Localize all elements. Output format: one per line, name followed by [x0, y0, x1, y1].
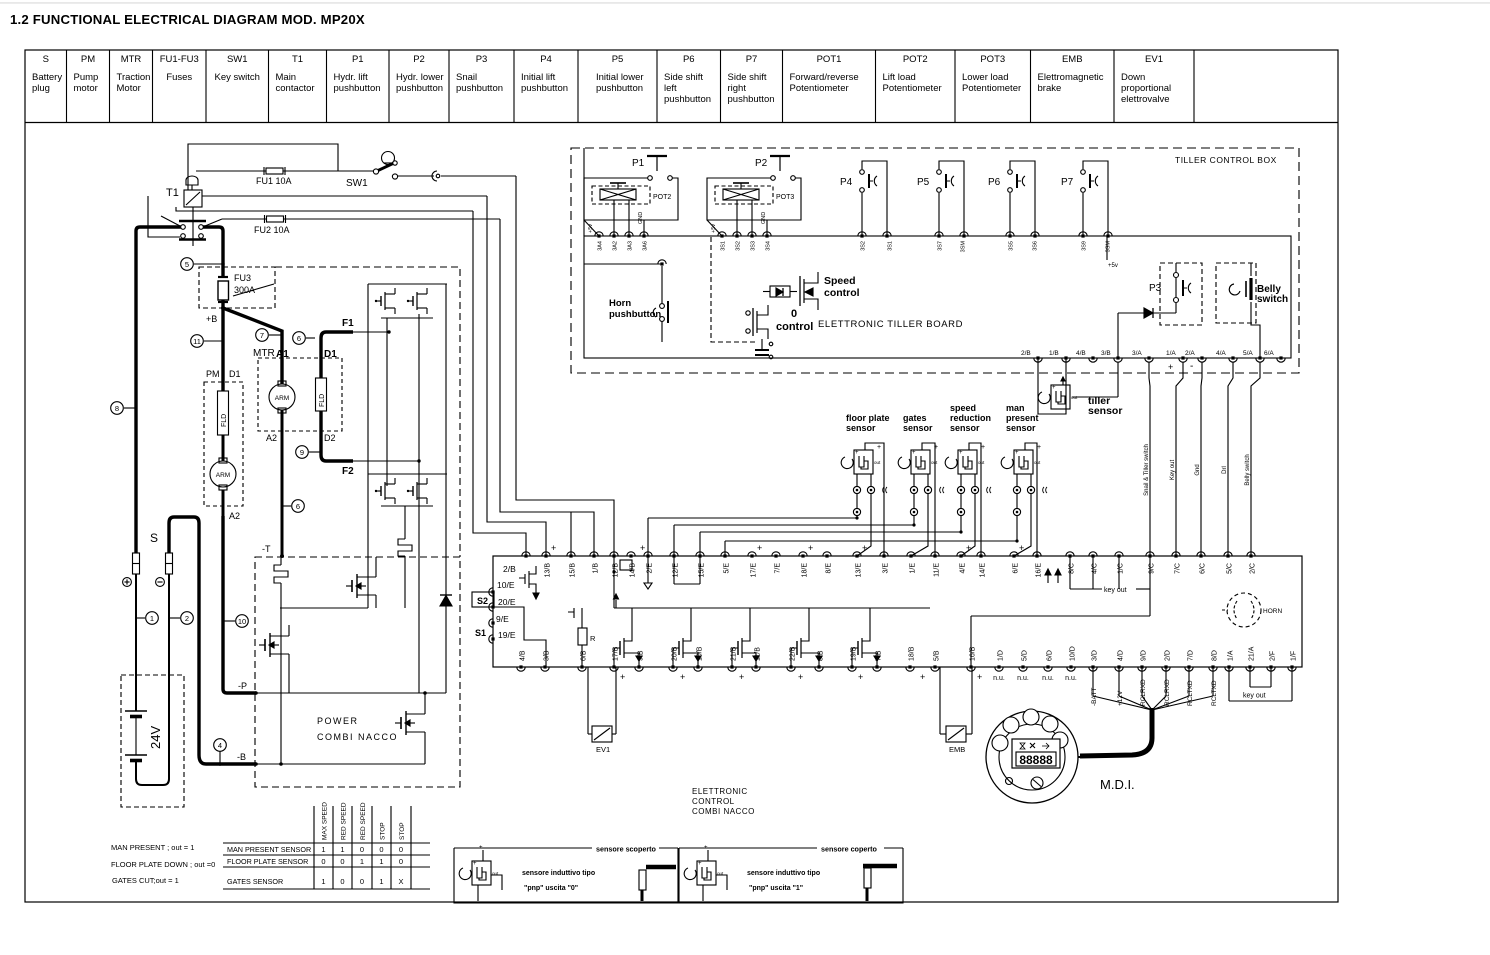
svg-text:key out: key out: [1104, 587, 1127, 594]
fuse FU1 10A: [266, 168, 283, 174]
wire bus y196 from T1 coil: [202, 195, 487, 197]
svg-text:Side shift: Side shift: [664, 72, 703, 83]
contactor T1 flag: [186, 176, 198, 185]
svg-text:Pump: Pump: [74, 72, 99, 83]
speed control transistor: [799, 276, 801, 306]
wire T1 aux diagonals: [161, 216, 180, 226]
svg-text:-P: -P: [238, 681, 247, 691]
svg-text:+: +: [479, 845, 483, 851]
wire stub 15/B: [570, 512, 572, 556]
svg-text:8/D: 8/D: [1212, 650, 1219, 661]
circled 4: [214, 739, 227, 752]
wire FU2 right: [283, 218, 500, 220]
svg-text:11/E: 11/E: [934, 563, 941, 577]
svg-text:15/B: 15/B: [570, 563, 577, 578]
svg-text:1: 1: [321, 845, 325, 854]
svg-text:FLD: FLD: [319, 394, 326, 407]
wire FLD to ARM (PM): [222, 435, 225, 461]
svg-text:+: +: [680, 672, 685, 682]
svg-text:+: +: [1168, 362, 1173, 372]
svg-text:POT3: POT3: [980, 54, 1005, 65]
tiller control box dashed: [571, 148, 1299, 373]
fuse FU3 dashed box: [199, 267, 275, 308]
svg-text:+: +: [808, 543, 813, 553]
svg-text:Initial lift: Initial lift: [521, 72, 556, 83]
wire FU2 left: [222, 218, 267, 220]
svg-text:3S6: 3S6: [1033, 241, 1039, 251]
svg-text:Snail & Tiller switch: Snail & Tiller switch: [1144, 444, 1150, 496]
outer border frame: [25, 50, 1338, 902]
svg-text:GND: GND: [761, 212, 767, 224]
diode P3: [1144, 308, 1153, 318]
svg-text:+: +: [473, 861, 477, 867]
svg-text:1/F: 1/F: [1291, 651, 1298, 661]
svg-text:2/F: 2/F: [1270, 651, 1277, 661]
wire ARM down (PM): [222, 490, 225, 516]
svg-text:right: right: [728, 83, 747, 94]
svg-text:sensor: sensor: [903, 423, 933, 433]
svg-text:14/E: 14/E: [980, 563, 987, 578]
svg-text:GND: GND: [638, 212, 644, 224]
svg-text:1/B: 1/B: [1049, 350, 1059, 357]
circled 1: [146, 612, 159, 625]
svg-text:7: 7: [260, 331, 264, 340]
svg-text:+: +: [698, 861, 702, 867]
svg-text:pushbutton: pushbutton: [396, 83, 443, 94]
wire horn feed: [584, 263, 662, 265]
wire bus top mosfet pair: [368, 283, 447, 285]
stub 2/E arrow: [647, 556, 649, 583]
wire diode to -P: [445, 606, 447, 693]
pushbutton P7: [1081, 170, 1086, 175]
svg-text:CONTROL: CONTROL: [692, 797, 735, 806]
contactor T1 coil stem: [192, 207, 194, 246]
svg-text:3/B: 3/B: [1101, 350, 1111, 357]
svg-text:POT1: POT1: [817, 54, 842, 65]
svg-text:Speed: Speed: [824, 275, 856, 287]
field FLD (PM): [218, 391, 229, 435]
svg-text:3/D: 3/D: [1092, 650, 1099, 661]
svg-text:Belly switch: Belly switch: [1245, 454, 1251, 485]
tiller sensor symbol: [1051, 385, 1070, 409]
svg-text:GATES SENSOR: GATES SENSOR: [227, 877, 283, 886]
svg-text:21/A: 21/A: [1249, 646, 1256, 661]
svg-text:+: +: [551, 543, 556, 553]
P3 dashed outline: [1160, 263, 1202, 325]
svg-text:3S2: 3S2: [861, 241, 867, 251]
pushbutton P3: [1174, 273, 1179, 278]
svg-text:Key switch: Key switch: [215, 72, 260, 83]
svg-text:RED SPEED: RED SPEED: [360, 802, 367, 840]
svg-text:0: 0: [399, 857, 403, 866]
svg-text:T1: T1: [292, 54, 303, 65]
wire FU1 left: [196, 170, 266, 172]
key out bracket 2: [1228, 667, 1230, 701]
svg-text:man: man: [1006, 403, 1025, 413]
svg-text:sensor: sensor: [1088, 405, 1122, 417]
wire SW1 to right corner: [441, 175, 516, 177]
svg-text:3/A: 3/A: [1132, 350, 1142, 357]
tiller sensor output: [1072, 396, 1118, 398]
svg-text:MTR: MTR: [121, 54, 142, 65]
svg-text:pushbutton: pushbutton: [334, 83, 381, 94]
svg-text:PM: PM: [206, 369, 220, 379]
internal bus: [614, 607, 930, 609]
svg-text:5/A: 5/A: [1243, 350, 1253, 357]
svg-text:TILLER CONTROL BOX: TILLER CONTROL BOX: [1175, 155, 1277, 165]
wire M4 drain: [424, 693, 426, 703]
svg-text:3S7: 3S7: [938, 241, 944, 251]
svg-text:+: +: [1015, 450, 1019, 456]
svg-text:1/B: 1/B: [593, 563, 600, 574]
wire gate riser x281: [280, 557, 282, 565]
svg-text:control: control: [824, 287, 860, 299]
svg-text:S1: S1: [475, 628, 486, 638]
svg-text:+: +: [912, 450, 916, 456]
wire +5V stub: [1106, 236, 1108, 260]
svg-text:3SM: 3SM: [1106, 241, 1112, 253]
wire A2 to -P: [223, 516, 256, 693]
svg-text:3S5: 3S5: [1009, 241, 1015, 251]
svg-text:7/C: 7/C: [1175, 563, 1182, 574]
mosfet M4: [400, 717, 402, 729]
svg-text:Potentiometer: Potentiometer: [962, 83, 1021, 94]
svg-text:4/A: 4/A: [1216, 350, 1226, 357]
svg-text:proportional: proportional: [1121, 83, 1171, 94]
wire F2 thin: [353, 460, 419, 462]
svg-text:Battery: Battery: [32, 72, 62, 83]
svg-text:COMBI NACCO: COMBI NACCO: [317, 732, 398, 742]
svg-text:P7: P7: [746, 54, 758, 65]
svg-text:Hydr. lower: Hydr. lower: [396, 72, 444, 83]
svg-text:0: 0: [399, 845, 403, 854]
svg-text:POT2: POT2: [653, 194, 671, 201]
svg-text:0: 0: [321, 857, 325, 866]
wire Key out: [1176, 362, 1183, 556]
wire +B diagonal to MTR A1: [223, 308, 282, 384]
svg-text:7/D: 7/D: [1188, 650, 1195, 661]
wire pair lower source bus: [381, 505, 433, 507]
fuse FU3 300A: [218, 276, 228, 278]
svg-text:+: +: [757, 543, 762, 553]
stubs 12/E 15/E: [673, 556, 675, 584]
svg-text:5/D: 5/D: [1022, 650, 1029, 661]
svg-text:control: control: [776, 321, 813, 333]
wire -B rail: [256, 763, 425, 765]
svg-text:P2: P2: [413, 54, 425, 65]
svg-text:+12V: +12V: [1117, 690, 1124, 706]
sensor truth table: [223, 842, 430, 844]
svg-text:SW1: SW1: [227, 54, 248, 65]
wire drop x473 to pin 2/B: [473, 211, 526, 556]
svg-text:Horn: Horn: [609, 298, 631, 309]
svg-text:MTR: MTR: [253, 348, 275, 359]
svg-text:-B: -B: [237, 752, 246, 762]
svg-text:P1: P1: [632, 158, 645, 169]
legend table: [25, 50, 1338, 123]
svg-text:1/A: 1/A: [1166, 350, 1176, 357]
0 control dashed outline: [711, 237, 758, 342]
svg-text:+: +: [704, 845, 708, 851]
svg-text:plug: plug: [32, 83, 50, 94]
svg-text:6/E: 6/E: [1013, 563, 1020, 574]
wire +B down PM branch: [221, 308, 224, 391]
svg-text:3S4: 3S4: [766, 241, 772, 251]
svg-text:F2: F2: [342, 466, 354, 477]
wire MDI to cable: [1078, 756, 1085, 758]
svg-text:sensore coperto: sensore coperto: [821, 845, 878, 854]
svg-text:2/C: 2/C: [1250, 563, 1257, 574]
svg-text:18/B: 18/B: [909, 646, 916, 661]
svg-text:1: 1: [340, 845, 344, 854]
svg-text:3SM: 3SM: [961, 241, 967, 253]
svg-text:F1: F1: [342, 318, 354, 329]
svg-text:6/A: 6/A: [1264, 350, 1274, 357]
svg-text:pushbutton: pushbutton: [664, 94, 711, 105]
svg-text:5: 5: [185, 260, 189, 269]
svg-text:1.2 FUNCTIONAL ELECTRICAL DIAG: 1.2 FUNCTIONAL ELECTRICAL DIAGRAM MOD. M…: [10, 12, 365, 27]
wire bus y211 from T1: [176, 207, 473, 211]
svg-text:P3: P3: [476, 54, 488, 65]
svg-text:sensor: sensor: [950, 423, 980, 433]
MDI harness fan: [1092, 667, 1094, 696]
wire Gnd: [1201, 362, 1202, 556]
contactor T1 contact bars: [179, 220, 206, 223]
svg-text:0: 0: [340, 877, 344, 886]
wire negative below plug: [136, 574, 169, 785]
svg-text:HORN: HORN: [1263, 608, 1282, 615]
0 control pushbutton: [761, 339, 763, 350]
inner partition: [493, 607, 546, 667]
wire Snail & Tiller switch: [1149, 362, 1150, 556]
svg-text:2/D: 2/D: [1165, 650, 1172, 661]
svg-text:X: X: [398, 877, 403, 886]
battery cell 2: [125, 754, 147, 756]
circled 8: [111, 402, 124, 415]
svg-text:pushbutton: pushbutton: [596, 83, 643, 94]
svg-text:-BATT: -BATT: [1091, 688, 1098, 706]
svg-text:+5v: +5v: [588, 224, 594, 233]
belly dashed outline: [1216, 263, 1256, 323]
svg-text:Hydr. lift: Hydr. lift: [334, 72, 369, 83]
diode main: [440, 596, 452, 607]
svg-text:n.u.: n.u.: [1042, 675, 1054, 682]
power block dashed box: [255, 557, 460, 787]
svg-text:motor: motor: [74, 83, 98, 94]
svg-text:10/E: 10/E: [497, 580, 515, 590]
svg-text:GATES CUT;out = 1: GATES CUT;out = 1: [112, 876, 179, 885]
svg-text:4/D: 4/D: [1118, 650, 1125, 661]
svg-text:P7: P7: [1061, 177, 1074, 188]
svg-text:RCLTXD: RCLTXD: [1211, 680, 1218, 706]
wire thick T1 right to FU3: [203, 227, 223, 277]
svg-text:gates: gates: [903, 413, 927, 423]
svg-text:5/C: 5/C: [1227, 563, 1234, 574]
svg-text:9/D: 9/D: [1141, 650, 1148, 661]
horn dashed circle: [1227, 593, 1261, 627]
svg-text:0: 0: [360, 845, 364, 854]
svg-text:6/C: 6/C: [1200, 563, 1207, 574]
svg-text:out: out: [874, 460, 881, 465]
svg-text:+: +: [862, 543, 867, 553]
tiller board bottom connector: [1034, 358, 1042, 362]
svg-text:sensore induttivo tipo: sensore induttivo tipo: [747, 870, 820, 877]
svg-text:10: 10: [238, 617, 246, 626]
connector S2: [472, 592, 494, 607]
svg-text:ARM: ARM: [275, 395, 289, 402]
pushbutton P6: [1008, 170, 1013, 175]
wire vertical x387: [386, 318, 388, 486]
svg-text:S: S: [43, 54, 49, 65]
svg-text:3A4: 3A4: [598, 241, 604, 251]
svg-text:+: +: [981, 444, 985, 451]
wire vertical x368: [367, 284, 369, 608]
svg-text:M.D.I.: M.D.I.: [1100, 777, 1135, 792]
svg-text:A2: A2: [266, 433, 277, 443]
svg-text:ARM: ARM: [216, 472, 230, 479]
svg-text:+: +: [855, 450, 859, 456]
svg-text:n.u.: n.u.: [1065, 675, 1077, 682]
armature ARM (MTR): [269, 384, 295, 410]
mosfet pair upper: [380, 296, 382, 306]
polarity minus: [156, 578, 165, 587]
wire drop x500 to pin 1/B: [500, 219, 594, 556]
svg-text:Drl: Drl: [1222, 466, 1228, 474]
svg-text:RED SPEED: RED SPEED: [341, 802, 348, 840]
svg-text:3/B: 3/B: [544, 650, 551, 661]
battery 24V dashed box: [121, 675, 184, 807]
tiller sensor enclosure: [1038, 362, 1066, 414]
circled 6 upper: [293, 332, 306, 345]
svg-text:3S1: 3S1: [888, 241, 894, 251]
wire M4 source: [424, 739, 426, 764]
mosfet glyph near 10/E: [519, 566, 536, 590]
circled 9: [296, 446, 309, 459]
svg-text:RCLRXD: RCLRXD: [1140, 679, 1147, 706]
wire FU3 to +B junction: [221, 300, 224, 308]
svg-text:POT2: POT2: [903, 54, 928, 65]
brake coil EMB: [939, 667, 941, 734]
svg-text:P2: P2: [755, 158, 768, 169]
wire negative loop over: [169, 517, 199, 755]
svg-text:sensore induttivo tipo: sensore induttivo tipo: [522, 870, 595, 877]
svg-text:FU1-FU3: FU1-FU3: [160, 54, 199, 65]
svg-text:EV1: EV1: [1145, 54, 1163, 65]
speed control diode box: [770, 286, 790, 297]
control unit bottom pins: [517, 667, 525, 671]
svg-text:+: +: [959, 450, 963, 456]
circled 11: [191, 335, 204, 348]
svg-text:5/E: 5/E: [724, 563, 731, 574]
output mosfet 639: [614, 648, 620, 667]
page top rule: [0, 2, 1490, 3]
svg-text:Main: Main: [276, 72, 297, 83]
wire -P rail: [256, 692, 446, 694]
callout line FU3: [233, 284, 274, 296]
output mosfet 698: [673, 648, 679, 667]
svg-text:floor plate: floor plate: [846, 413, 890, 423]
svg-text:+5v: +5v: [1108, 263, 1118, 269]
svg-text:5/B: 5/B: [934, 650, 941, 661]
svg-text:Forward/reverse: Forward/reverse: [790, 72, 859, 83]
svg-text:2: 2: [185, 614, 189, 623]
polarity plus: [123, 578, 132, 587]
wire x405 to bus: [404, 556, 406, 608]
svg-text:6: 6: [297, 334, 301, 343]
mosfet M2: [264, 639, 266, 651]
svg-text:3S9: 3S9: [1082, 241, 1088, 251]
svg-text:P5: P5: [917, 177, 930, 188]
wire M1 source bus: [280, 607, 368, 609]
svg-text:ELETTRONIC TILLER BOARD: ELETTRONIC TILLER BOARD: [818, 319, 963, 330]
MDI instrument: [986, 711, 1078, 803]
svg-text:n.u.: n.u.: [993, 675, 1005, 682]
svg-text:4/B: 4/B: [1076, 350, 1086, 357]
circled 5: [181, 258, 194, 271]
svg-text:8: 8: [115, 404, 119, 413]
svg-text:Traction: Traction: [117, 72, 151, 83]
svg-text:EMB: EMB: [949, 745, 965, 754]
circled 2: [181, 612, 194, 625]
svg-text:present: present: [1006, 413, 1039, 423]
svg-text:EMB: EMB: [1062, 54, 1083, 65]
svg-text:2/B: 2/B: [503, 564, 516, 574]
svg-text:1: 1: [360, 857, 364, 866]
left edge pins: [489, 588, 493, 596]
svg-text:Down: Down: [1121, 72, 1145, 83]
wire T1 coil left lead: [148, 196, 180, 237]
svg-text:+: +: [920, 672, 925, 682]
svg-text:POWER: POWER: [317, 716, 359, 726]
svg-text:0: 0: [360, 877, 364, 886]
svg-text:3S1: 3S1: [721, 241, 727, 251]
svg-text:8/E: 8/E: [826, 563, 833, 574]
wire pair lower top bus: [368, 473, 447, 475]
svg-text:-: -: [1190, 361, 1193, 372]
svg-text:Key out: Key out: [1170, 460, 1176, 481]
armature ARM (PM): [210, 461, 236, 487]
contactor T1 contact circles: [181, 225, 186, 230]
svg-text:D2: D2: [324, 433, 336, 443]
mosfet pair lower: [380, 486, 382, 496]
key out bracket 1: [1249, 667, 1251, 687]
pushbutton P1 with POT2 group: [584, 178, 678, 220]
wire 3/B internal: [1117, 313, 1119, 358]
svg-text:EV1: EV1: [596, 745, 610, 754]
svg-text:+B: +B: [206, 314, 217, 324]
svg-text:2/B: 2/B: [1021, 350, 1031, 357]
svg-text:MAN PRESENT ; out = 1: MAN PRESENT ; out = 1: [111, 843, 194, 852]
svg-text:pushbutton: pushbutton: [521, 83, 568, 94]
svg-text:+: +: [1037, 444, 1041, 451]
svg-text:A2: A2: [229, 511, 240, 521]
wire vertical x446 top: [445, 284, 447, 595]
MDI cable thick: [1080, 708, 1152, 756]
wire drop x487 to pin 13/B: [487, 196, 546, 556]
svg-text:FLOOR PLATE SENSOR: FLOOR PLATE SENSOR: [227, 857, 308, 866]
svg-text:13/E: 13/E: [856, 563, 863, 578]
svg-text:7/E: 7/E: [775, 563, 782, 574]
svg-text:0: 0: [791, 308, 797, 320]
svg-text:STOP: STOP: [399, 822, 406, 840]
wire FLD bottom to F2: [321, 411, 353, 461]
circled 6 lower: [292, 500, 305, 513]
svg-text:switch: switch: [1257, 294, 1288, 305]
svg-text:20/E: 20/E: [498, 597, 516, 607]
battery plug contact -: [166, 553, 173, 574]
svg-text:STOP: STOP: [380, 822, 387, 840]
svg-text:2/A: 2/A: [1185, 350, 1195, 357]
